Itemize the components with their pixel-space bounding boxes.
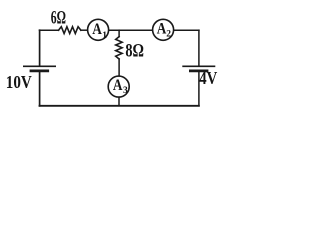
wire right vertical lower [198,72,200,106]
wire bottom horizontal [40,105,199,107]
wire ammeter A3 to bottom wire [118,97,120,106]
resistor R2 8Ω vertical zigzag [116,37,122,59]
wire ammeter A2 to top-right corner [174,29,199,31]
ammeter A1 circle [88,19,109,40]
wire right vertical upper [198,30,200,65]
wire resistor R2 to ammeter A3 [118,59,120,76]
svg-text:8Ω: 8Ω [125,40,144,61]
svg-text:4V: 4V [199,68,217,88]
svg-text:10V: 10V [6,72,32,92]
ammeter A2 circle [153,19,174,40]
battery B2 4V long plate [182,65,215,67]
battery B1 10V short thick plate [30,70,49,73]
wire resistor R1 to ammeter A1 [81,29,88,31]
battery B2 4V short thick plate [189,70,208,73]
wire ammeter A1 to junction and ammeter A2 [109,29,153,31]
svg-text:A: A [157,20,167,37]
ammeter A3 circle [108,76,129,97]
svg-text:A: A [113,77,123,94]
svg-text:6Ω: 6Ω [51,8,66,29]
resistor R1 6Ω zigzag [59,27,81,34]
svg-text:A: A [92,21,102,38]
wire left vertical upper [39,30,41,65]
wire left vertical lower [39,72,41,106]
wire junction to resistor R2 [118,30,120,36]
svg-text:3: 3 [123,86,128,96]
battery B1 10V long plate [23,65,56,67]
svg-text:1: 1 [102,31,107,41]
svg-text:2: 2 [166,29,171,39]
wire top-left segment [40,29,59,31]
